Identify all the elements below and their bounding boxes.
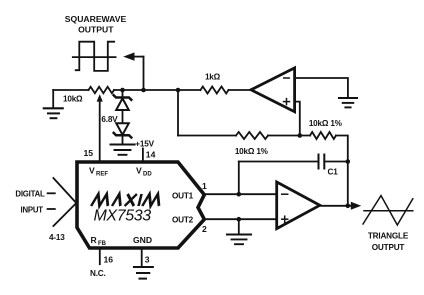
label SQUAREWAVE OUTPUT: [65, 14, 127, 35]
svg-text:10kΩ: 10kΩ: [63, 95, 83, 104]
pin RFB label: [91, 235, 107, 247]
node (zener tap): [120, 88, 125, 93]
pin VDD label: [136, 166, 152, 178]
svg-text:OUTPUT: OUTPUT: [372, 243, 405, 252]
node (output junction): [346, 204, 351, 209]
svg-text:GND: GND: [133, 235, 152, 245]
capacitor C1: [239, 155, 348, 169]
resistor 1k (zigzag): [201, 87, 229, 94]
node (squarewave branch): [141, 88, 146, 93]
node (OUT1 / C1 branch): [237, 192, 242, 197]
svg-text:SQUAREWAVE: SQUAREWAVE: [65, 14, 127, 24]
wire U1 inverting input to ground: [295, 78, 348, 98]
wire top divider branch down: [177, 90, 179, 136]
svg-text:OUTPUT: OUTPUT: [78, 25, 114, 35]
ground (U1 inverting input): [339, 98, 357, 107]
ground (zener chain): [111, 145, 135, 155]
squarewave symbol: [73, 42, 116, 71]
arrow to squarewave output: [123, 52, 143, 60]
ground (left of 10k pot): [44, 90, 63, 118]
ground (IC GND pin): [134, 267, 153, 279]
label DIGITAL INPUT: [15, 190, 45, 215]
wire pin 16 stub: [99, 248, 101, 264]
svg-text:+15V: +15V: [135, 139, 154, 148]
wire top middle: [114, 89, 201, 91]
potentiometer wiper arrow to pin 15: [97, 94, 103, 161]
svg-text:3: 3: [145, 255, 150, 265]
potentiometer R 10k (zigzag): [89, 87, 115, 93]
svg-text:DD: DD: [143, 172, 152, 178]
svg-text:OUT2: OUT2: [172, 216, 194, 225]
svg-text:DIGITAL: DIGITAL: [15, 190, 45, 199]
MAXIM logo: [91, 194, 162, 206]
svg-text:FB: FB: [98, 241, 107, 247]
svg-text:REF: REF: [96, 172, 108, 178]
wire U1 non-inverting input down to divider: [295, 102, 300, 136]
wire squarewave branch vertical: [143, 57, 145, 90]
svg-text:2: 2: [202, 224, 207, 234]
wire OUT1 to U2 inverting input: [204, 193, 276, 195]
wire U2 output: [320, 205, 352, 207]
resistor R 10k 1% (right, zigzag): [310, 132, 336, 139]
zener diode D1 6.8V: [114, 90, 132, 123]
svg-text:V: V: [136, 166, 142, 176]
svg-text:R: R: [91, 235, 98, 245]
svg-text:C1: C1: [328, 168, 339, 177]
arrow triangle output: [351, 202, 361, 210]
svg-text:1kΩ: 1kΩ: [205, 73, 221, 82]
IC U3 MX7533 body: [77, 162, 204, 248]
wire resistor 1k to op-amp U1: [229, 89, 252, 91]
zener diode D2: [114, 123, 132, 144]
node (C1 right plate junction): [346, 159, 351, 164]
wire top left: [53, 89, 88, 91]
wire between divider resistors: [268, 135, 310, 137]
ground (U2 non-inverting input): [227, 235, 251, 245]
wire pin 3 to ground: [141, 248, 143, 267]
wire OUT2 to U2 non-inverting input: [204, 218, 276, 220]
svg-text:10kΩ 1%: 10kΩ 1%: [309, 119, 343, 128]
svg-text:10kΩ 1%: 10kΩ 1%: [235, 147, 269, 156]
op-amp U1 (comparator, points left): [251, 68, 295, 112]
svg-text:OUT1: OUT1: [172, 192, 194, 201]
wire lower left: [178, 135, 236, 137]
digital input bus arrow: [48, 178, 76, 226]
wire divider to output node: [336, 136, 348, 206]
pin VREF label: [89, 166, 108, 178]
label TRIANGLE OUTPUT: [368, 232, 409, 253]
svg-text:4-13: 4-13: [49, 233, 65, 242]
svg-text:INPUT: INPUT: [20, 206, 43, 215]
op-amp U2 (integrator, points right): [277, 182, 320, 229]
svg-text:14: 14: [146, 150, 156, 160]
svg-text:1: 1: [202, 181, 207, 191]
wire +15V to pin 14: [142, 149, 144, 162]
svg-text:16: 16: [104, 255, 114, 265]
svg-text:TRIANGLE: TRIANGLE: [368, 232, 409, 241]
wire OUT2 node to ground: [238, 219, 240, 234]
node (divider branch): [176, 88, 181, 93]
node (OUT2 ground branch): [237, 217, 242, 222]
triangle wave symbol: [363, 196, 413, 225]
svg-text:15: 15: [83, 148, 93, 158]
svg-text:MX7533: MX7533: [94, 208, 152, 225]
wire C1 left down to OUT1 line: [238, 162, 240, 195]
svg-text:N.C.: N.C.: [90, 269, 106, 278]
node (divider junction): [298, 133, 303, 138]
resistor R 10k 1% (left, zigzag): [236, 132, 268, 139]
svg-text:V: V: [89, 166, 95, 176]
